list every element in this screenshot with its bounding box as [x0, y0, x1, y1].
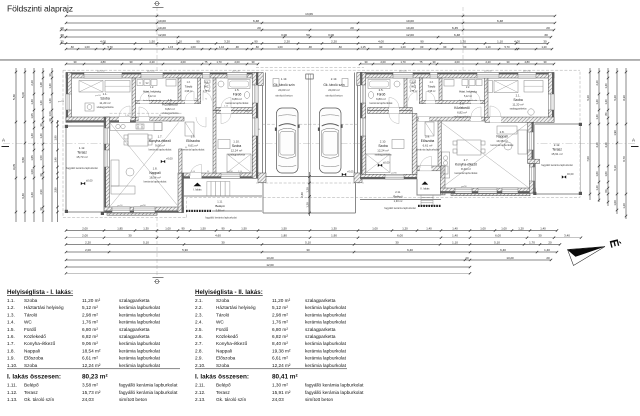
svg-text:2.5.: 2.5. [379, 88, 384, 92]
svg-text:24,03 m²: 24,03 m² [328, 88, 339, 92]
svg-text:1,00: 1,00 [84, 45, 90, 49]
svg-text:1,20: 1,20 [305, 187, 309, 193]
dining table 2 [457, 140, 481, 155]
plinth strip below nappali south wall [107, 213, 157, 215]
svg-text:1,20: 1,20 [595, 185, 599, 191]
svg-text:kerámia lapburkolat: kerámia lapburkolat [143, 99, 162, 102]
svg-text:Gk. tároló szín: Gk. tároló szín [216, 397, 247, 402]
svg-text:8,30: 8,30 [622, 95, 626, 101]
svg-text:Fürdő: Fürdő [216, 327, 229, 332]
svg-text:1.5.: 1.5. [235, 88, 240, 92]
svg-text:1,00: 1,00 [48, 111, 52, 117]
svg-text:1,40: 1,40 [426, 226, 432, 230]
svg-text:kerámia lapburkolat: kerámia lapburkolat [416, 148, 439, 152]
svg-text:1,50: 1,50 [281, 226, 287, 230]
svg-text:,60: ,60 [463, 45, 467, 49]
svg-text:2,20: 2,20 [331, 39, 337, 43]
svg-text:1,40: 1,40 [452, 226, 458, 230]
svg-text:Előszoba: Előszoba [421, 139, 435, 143]
svg-text:2.3.: 2.3. [430, 82, 434, 84]
svg-text:,60: ,60 [70, 45, 74, 49]
svg-text:Konyha-étkező: Konyha-étkező [149, 139, 171, 143]
svg-text:7,00: 7,00 [586, 156, 590, 162]
svg-text:6,61 m²: 6,61 m² [188, 143, 198, 147]
furniture wc 2 [410, 80, 416, 83]
svg-text:1,10: 1,10 [176, 39, 182, 43]
svg-text:1,40: 1,40 [39, 133, 43, 139]
svg-text:30: 30 [221, 240, 225, 244]
carport center dim line [309, 172, 311, 216]
svg-text:Szoba: Szoba [100, 96, 110, 100]
svg-text:1,10: 1,10 [219, 45, 225, 49]
svg-text:10,20: 10,20 [406, 26, 414, 30]
svg-text:12,24 m²: 12,24 m² [231, 148, 242, 152]
svg-text:1,50: 1,50 [241, 226, 247, 230]
dimension chains right margin [589, 68, 591, 200]
svg-text:13,20: 13,20 [506, 256, 514, 260]
svg-text:1,90: 1,90 [331, 234, 337, 238]
svg-text:1,00: 1,00 [30, 169, 34, 175]
svg-text:20: 20 [546, 26, 550, 30]
entrance marker I. lakás [194, 183, 202, 187]
svg-text:3,50: 3,50 [21, 157, 25, 163]
elevation marker nappali [161, 160, 165, 163]
svg-text:kerámia lapburkolat: kerámia lapburkolat [119, 312, 161, 317]
svg-text:Fürdő: Fürdő [377, 92, 386, 96]
furniture háztartási [137, 80, 143, 86]
svg-text:WC: WC [411, 84, 416, 88]
svg-text:90: 90 [254, 39, 258, 43]
svg-text:kerámia lapburkolat: kerámia lapburkolat [305, 363, 347, 368]
car 1 [275, 108, 300, 173]
svg-text:2,98 m²: 2,98 m² [428, 90, 436, 93]
svg-text:20: 20 [60, 26, 64, 30]
svg-text:pe/1,00: pe/1,00 [147, 71, 155, 73]
svg-text:1.12.: 1.12. [79, 146, 86, 150]
svg-text:4,00: 4,00 [100, 39, 106, 43]
svg-text:6,82 m²: 6,82 m² [165, 107, 175, 111]
furniture szoba 1.10 [227, 154, 251, 173]
right house: interior white fill [360, 73, 554, 194]
svg-text:1,40: 1,40 [595, 114, 599, 120]
svg-text:18,54 m²: 18,54 m² [149, 175, 160, 179]
svg-text:1.10.: 1.10. [7, 363, 17, 368]
svg-text:90: 90 [196, 39, 200, 43]
svg-text:szalagparketta: szalagparketta [510, 107, 527, 111]
svg-text:1,40: 1,40 [30, 133, 34, 139]
svg-text:kerámia lapburkolat: kerámia lapburkolat [370, 101, 393, 105]
svg-text:1,10: 1,10 [497, 39, 503, 43]
svg-text:1.3.: 1.3. [7, 312, 15, 317]
windows right house [393, 73, 413, 79]
svg-text:1.8.: 1.8. [7, 348, 15, 353]
section line B-B vertical left [156, 7, 158, 278]
svg-text:1,00: 1,00 [613, 200, 617, 206]
svg-text:13,66: 13,66 [305, 12, 313, 16]
svg-text:1.9.: 1.9. [7, 356, 15, 361]
svg-text:WC: WC [204, 84, 209, 88]
svg-text:pe/1,20: pe/1,20 [232, 71, 240, 73]
svg-text:24,03: 24,03 [82, 397, 94, 402]
svg-text:1,40: 1,40 [540, 226, 546, 230]
svg-text:2.6.: 2.6. [460, 102, 465, 106]
diagonals open space 2 [441, 122, 529, 188]
svg-text:SZ: SZ [145, 82, 149, 85]
svg-text:1,30 m²: 1,30 m² [394, 199, 403, 203]
svg-text:1,40: 1,40 [39, 100, 43, 106]
right house: exterior walls [360, 73, 554, 79]
svg-text:1,65: 1,65 [30, 155, 34, 161]
svg-text:simított beton: simított beton [275, 93, 293, 97]
svg-text:,60: ,60 [338, 45, 342, 49]
svg-text:fagyálló kerámia lapburkolat: fagyálló kerámia lapburkolat [305, 390, 364, 395]
svg-text:kerámia lapburkolat: kerámia lapburkolat [305, 312, 347, 317]
svg-text:6,00: 6,00 [495, 234, 501, 238]
svg-text:1,30: 1,30 [460, 39, 466, 43]
svg-text:1,60: 1,60 [604, 171, 608, 177]
svg-text:pe/1,00: pe/1,00 [484, 71, 492, 73]
svg-text:1.9.: 1.9. [191, 135, 196, 139]
svg-text:Tároló: Tároló [185, 84, 193, 88]
svg-text:30: 30 [543, 39, 547, 43]
svg-text:Közlekedő: Közlekedő [24, 334, 46, 339]
svg-text:1,05: 1,05 [30, 113, 34, 119]
svg-text:pm/90: pm/90 [58, 101, 65, 103]
svg-text:Előszoba: Előszoba [186, 139, 200, 143]
svg-text:Konyha-étkező: Konyha-étkező [216, 341, 248, 346]
svg-text:1.10.: 1.10. [233, 140, 240, 144]
svg-text:szalagparketta: szalagparketta [119, 327, 150, 332]
svg-text:2.3.: 2.3. [195, 312, 203, 317]
beam dashes open space [110, 112, 183, 114]
svg-text:11,20 m²: 11,20 m² [512, 102, 523, 106]
svg-text:,90: ,90 [443, 45, 447, 49]
svg-text:3,00: 3,00 [328, 33, 334, 37]
svg-text:1.6.: 1.6. [7, 334, 15, 339]
svg-text:1,40: 1,40 [48, 83, 52, 89]
section line B-B vertical right [462, 7, 464, 195]
svg-text:II. lakás: II. lakás [421, 187, 431, 191]
svg-text:6,40: 6,40 [407, 248, 413, 252]
svg-text:Terasz: Terasz [77, 150, 87, 154]
right house: interior walls [485, 78, 489, 118]
svg-text:szalagparketta: szalagparketta [305, 334, 336, 339]
svg-text:Szoba: Szoba [513, 98, 523, 102]
svg-text:2.6.: 2.6. [195, 334, 203, 339]
svg-text:8,40 m²: 8,40 m² [272, 341, 288, 346]
svg-text:9,06 m²: 9,06 m² [155, 143, 165, 147]
svg-text:6,61 m²: 6,61 m² [272, 356, 288, 361]
svg-text:Belépő: Belépő [216, 383, 231, 388]
svg-text:I. lakás összesen:: I. lakás összesen: [195, 373, 249, 380]
door arcs [119, 106, 130, 117]
svg-text:80,23 m²: 80,23 m² [82, 373, 108, 380]
svg-text:12,24 m²: 12,24 m² [82, 363, 101, 368]
svg-text:1,40: 1,40 [53, 157, 57, 163]
svg-text:20: 20 [465, 256, 469, 260]
svg-text:2.4.: 2.4. [412, 82, 416, 84]
svg-text:Szoba: Szoba [378, 144, 388, 148]
svg-text:3,40: 3,40 [30, 192, 34, 198]
svg-text:80,41 m²: 80,41 m² [272, 373, 298, 380]
svg-text:6,48: 6,48 [253, 19, 259, 23]
svg-text:1,30 m²: 1,30 m² [272, 383, 288, 388]
svg-text:6,61 m²: 6,61 m² [82, 356, 98, 361]
svg-text:12,00: 12,00 [406, 33, 414, 37]
svg-text:kerámia lapburkolat: kerámia lapburkolat [455, 171, 478, 175]
svg-text:Szoba: Szoba [24, 298, 38, 303]
svg-text:2.11.: 2.11. [395, 190, 401, 194]
svg-text:20: 20 [257, 26, 261, 30]
separator line [0, 59, 640, 61]
svg-text:3,58 m²: 3,58 m² [82, 383, 98, 388]
svg-text:15,91 m²: 15,91 m² [272, 390, 291, 395]
svg-text:1,20: 1,20 [541, 45, 547, 49]
furniture konyha [110, 123, 162, 131]
svg-text:Háztartási helyiség: Háztartási helyiség [24, 305, 64, 310]
svg-text:1.11.: 1.11. [7, 383, 17, 388]
furniture szoba 2.1 [494, 81, 518, 93]
svg-text:Földszinti alaprajz: Földszinti alaprajz [7, 4, 73, 14]
left house: interior white fill [66, 73, 258, 213]
svg-text:,90: ,90 [308, 45, 312, 49]
svg-text:2.2.: 2.2. [195, 305, 203, 310]
door openings [119, 117, 130, 122]
svg-text:4,00: 4,00 [514, 39, 520, 43]
belépő right: steps [421, 195, 433, 206]
svg-text:kerámia lapburkolat: kerámia lapburkolat [119, 363, 161, 368]
svg-text:pe/90: pe/90 [140, 205, 146, 207]
svg-text:2.7.: 2.7. [195, 341, 203, 346]
svg-text:5,20: 5,20 [613, 95, 617, 101]
svg-text:6,48: 6,48 [497, 19, 503, 23]
svg-text:±0,00: ±0,00 [383, 161, 390, 165]
svg-text:pe/90: pe/90 [117, 205, 123, 207]
svg-text:2,00: 2,00 [82, 226, 88, 230]
svg-text:30: 30 [60, 33, 64, 37]
svg-text:90: 90 [420, 39, 424, 43]
svg-text:1,20: 1,20 [305, 202, 309, 208]
svg-text:2.8.: 2.8. [195, 348, 203, 353]
svg-text:5,70: 5,70 [504, 45, 510, 49]
svg-text:2,00: 2,00 [85, 248, 91, 252]
svg-text:1.1.: 1.1. [103, 92, 108, 96]
svg-text:Konyha-étkező: Konyha-étkező [24, 341, 56, 346]
svg-text:Gk. tároló szín: Gk. tároló szín [323, 83, 344, 87]
svg-text:pm/90: pm/90 [95, 95, 102, 97]
svg-text:Szoba: Szoba [216, 298, 230, 303]
svg-text:30: 30 [538, 234, 542, 238]
svg-text:5,00: 5,00 [21, 92, 25, 98]
svg-text:kerámia lapburkolat: kerámia lapburkolat [491, 143, 514, 147]
svg-text:Nappali: Nappali [149, 171, 160, 175]
svg-text:6,80 m²: 6,80 m² [82, 327, 98, 332]
svg-text:1,30: 1,30 [331, 226, 337, 230]
svg-text:I. lakás összesen:: I. lakás összesen: [7, 373, 61, 380]
svg-text:pe/1,20: pe/1,20 [399, 71, 407, 73]
svg-text:10,00: 10,00 [158, 19, 166, 23]
svg-text:5,12 m²: 5,12 m² [82, 305, 98, 310]
svg-text:1,00: 1,00 [277, 45, 283, 49]
svg-text:2.13.: 2.13. [195, 397, 205, 402]
svg-text:6,00: 6,00 [397, 234, 403, 238]
svg-text:6,82 m²: 6,82 m² [272, 334, 288, 339]
svg-text:1.5.: 1.5. [7, 327, 15, 332]
svg-text:kerámia lapburkolat: kerámia lapburkolat [119, 305, 161, 310]
svg-text:4,20: 4,20 [595, 142, 599, 148]
carport structure [262, 73, 264, 183]
furniture konyha 2 (west counter) [442, 152, 450, 178]
svg-text:12,24 m²: 12,24 m² [272, 363, 291, 368]
svg-text:2.4.: 2.4. [195, 320, 203, 325]
svg-text:2,90: 2,90 [39, 189, 43, 195]
svg-text:1,80: 1,80 [281, 234, 287, 238]
svg-text:Belépő: Belépő [215, 204, 225, 208]
svg-text:kerámia lapburkolat: kerámia lapburkolat [119, 341, 161, 346]
svg-text:1,90: 1,90 [53, 135, 57, 141]
svg-text:2,20: 2,20 [85, 240, 91, 244]
svg-text:szalagparketta: szalagparketta [305, 298, 336, 303]
svg-text:6,82 m²: 6,82 m² [457, 110, 467, 114]
svg-text:2,20: 2,20 [284, 39, 290, 43]
svg-text:kerámia lapburkolat: kerámia lapburkolat [226, 101, 249, 105]
svg-text:Belépő: Belépő [393, 194, 403, 198]
svg-text:2.13.: 2.13. [331, 77, 338, 81]
svg-text:+0,05: +0,05 [347, 170, 354, 174]
svg-text:Szoba: Szoba [216, 363, 230, 368]
furniture nappali 2 [518, 130, 527, 154]
svg-text:1.6.: 1.6. [168, 98, 173, 102]
svg-text:WC: WC [24, 320, 32, 325]
svg-text:Közlekedő: Közlekedő [216, 334, 238, 339]
svg-text:9,05: 9,05 [12, 164, 16, 170]
svg-text:kerámia lapburkolat: kerámia lapburkolat [119, 356, 161, 361]
svg-text:3,40: 3,40 [564, 234, 570, 238]
furniture szoba 2.10 [366, 154, 390, 173]
svg-text:12,00: 12,00 [158, 33, 166, 37]
windows left house [84, 73, 122, 79]
svg-text:2.7.: 2.7. [464, 158, 469, 162]
svg-text:Belépő: Belépő [24, 383, 39, 388]
svg-text:1,40: 1,40 [544, 248, 550, 252]
svg-text:1,15: 1,15 [360, 45, 366, 49]
svg-text:pe/90: pe/90 [461, 186, 467, 188]
svg-text:19,38 m²: 19,38 m² [496, 139, 507, 143]
svg-text:2.10.: 2.10. [195, 363, 205, 368]
svg-text:,60: ,60 [420, 45, 424, 49]
svg-text:Szoba: Szoba [232, 144, 242, 148]
svg-text:Konyha-étkező: Konyha-étkező [455, 162, 477, 166]
svg-text:20: 20 [548, 240, 552, 244]
svg-text:szalagparketta: szalagparketta [228, 153, 245, 157]
svg-text:1,50: 1,50 [149, 39, 155, 43]
svg-text:simított beton: simított beton [305, 397, 334, 402]
svg-text:30: 30 [306, 248, 310, 252]
svg-text:90: 90 [181, 226, 185, 230]
svg-text:10,20: 10,20 [158, 26, 166, 30]
svg-text:11,20 m²: 11,20 m² [99, 101, 110, 105]
corner piers [258, 173, 266, 183]
dimension chains bottom [66, 230, 557, 232]
furniture fürdő 2 [368, 80, 390, 89]
svg-text:2.1.: 2.1. [195, 298, 203, 303]
svg-text:1,30: 1,30 [143, 226, 149, 230]
svg-text:1,70: 1,70 [529, 240, 535, 244]
svg-text:1,20: 1,20 [402, 226, 408, 230]
svg-text:fagyálló kerámia lapburkolat: fagyálló kerámia lapburkolat [66, 167, 97, 170]
svg-text:kerámia lapburkolat: kerámia lapburkolat [149, 148, 172, 152]
svg-text:kerámia lapburkolat: kerámia lapburkolat [305, 341, 347, 346]
svg-text:5,10: 5,10 [494, 240, 500, 244]
svg-text:szalagparketta: szalagparketta [305, 327, 336, 332]
svg-text:kerámia lapburkolat: kerámia lapburkolat [305, 305, 347, 310]
svg-text:szalagparketta: szalagparketta [97, 105, 114, 109]
svg-text:13,20: 13,20 [266, 256, 274, 260]
svg-text:30: 30 [544, 33, 548, 37]
svg-text:3,58 m²: 3,58 m² [216, 208, 225, 212]
svg-text:±0,00: ±0,00 [86, 179, 93, 183]
svg-text:Fürdő: Fürdő [233, 92, 242, 96]
svg-text:5,12 m²: 5,12 m² [148, 95, 156, 98]
svg-text:1,90: 1,90 [613, 130, 617, 136]
svg-text:2,98 m²: 2,98 m² [82, 312, 98, 317]
svg-text:1,00: 1,00 [501, 226, 507, 230]
svg-text:1.7.: 1.7. [158, 135, 163, 139]
svg-text:24,03 m²: 24,03 m² [278, 88, 289, 92]
svg-text:1,40: 1,40 [604, 99, 608, 105]
svg-text:Előszoba: Előszoba [216, 356, 236, 361]
svg-text:WC: WC [216, 320, 224, 325]
terrace right [535, 124, 581, 194]
svg-text:Terasz: Terasz [216, 390, 230, 395]
svg-text:6,45: 6,45 [452, 26, 458, 30]
svg-text:5,10: 5,10 [613, 165, 617, 171]
svg-text:1,48: 1,48 [39, 82, 43, 88]
section line A-A [3, 143, 637, 145]
svg-text:fagyálló kerámia lapburkolat: fagyálló kerámia lapburkolat [384, 207, 415, 210]
svg-text:Helyiséglista - I. lakás:: Helyiséglista - I. lakás: [7, 289, 73, 296]
svg-text:11,20 m²: 11,20 m² [82, 298, 101, 303]
svg-text:1,40: 1,40 [595, 99, 599, 105]
svg-text:2.12.: 2.12. [554, 143, 561, 147]
svg-text:Nappali: Nappali [24, 348, 40, 353]
svg-text:Házt. helyiség: Házt. helyiség [459, 89, 477, 93]
svg-text:+0,00: +0,00 [166, 157, 173, 161]
svg-text:Közlekedő: Közlekedő [454, 106, 470, 110]
dimension chains top [66, 15, 555, 17]
furniture háztartási 2 [462, 80, 468, 86]
svg-text:1,76 m²: 1,76 m² [410, 90, 418, 93]
svg-text:18,54 m²: 18,54 m² [82, 348, 101, 353]
svg-text:6,80 m²: 6,80 m² [376, 97, 386, 101]
furniture wc [205, 80, 211, 83]
svg-text:1,20: 1,20 [622, 203, 626, 209]
svg-text:1.4.: 1.4. [7, 320, 15, 325]
svg-text:±0,00: ±0,00 [567, 172, 574, 176]
svg-text:2.9.: 2.9. [195, 356, 203, 361]
svg-text:fagyálló kerámia lapburkolat: fagyálló kerámia lapburkolat [119, 390, 178, 395]
svg-text:2,98 m²: 2,98 m² [185, 90, 193, 93]
left house: interior walls [132, 78, 136, 118]
svg-text:2.5.: 2.5. [195, 327, 203, 332]
svg-text:6,80 m²: 6,80 m² [272, 327, 288, 332]
svg-text:15,73 m²: 15,73 m² [76, 155, 87, 159]
left house: exterior walls hatched [66, 73, 258, 79]
svg-text:Fürdő: Fürdő [24, 327, 37, 332]
svg-text:5,12 m²: 5,12 m² [272, 305, 288, 310]
svg-text:12,60: 12,60 [266, 263, 274, 267]
svg-text:2,40: 2,40 [300, 192, 304, 198]
